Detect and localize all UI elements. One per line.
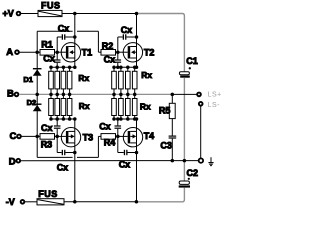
svg-text:T2: T2 bbox=[144, 48, 155, 58]
capacitor C1 bbox=[179, 56, 197, 78]
svg-text:C2: C2 bbox=[187, 168, 199, 178]
gray decoupling loop: top segment bbox=[137, 14, 185, 72]
T3 source wire to -V rail bbox=[74, 143, 76, 202]
svg-text:T1: T1 bbox=[82, 48, 93, 58]
T4 source wire to -V rail bbox=[136, 143, 138, 202]
fuse FUS top bbox=[38, 0, 62, 16]
over-route wire A to R2 (hops T1 drain) bbox=[37, 31, 101, 52]
T1 drain wire to +V rail bbox=[74, 14, 76, 47]
resistor R3 bbox=[40, 134, 57, 150]
LS+ terminal bbox=[197, 92, 222, 99]
svg-text:C: C bbox=[10, 131, 17, 142]
resistor R4 bbox=[101, 134, 118, 148]
svg-text:Cx: Cx bbox=[41, 123, 53, 133]
svg-text:D1: D1 bbox=[23, 75, 33, 84]
svg-text:Cx: Cx bbox=[43, 53, 55, 63]
D terminal bbox=[9, 156, 20, 167]
bottom -V rail wire bbox=[64, 201, 136, 203]
svg-text:R5: R5 bbox=[159, 106, 171, 116]
svg-text:R1: R1 bbox=[41, 40, 53, 50]
T1 source wire to Rx bus bbox=[74, 58, 76, 67]
B terminal bbox=[7, 88, 18, 99]
capacitor C3 bbox=[160, 136, 176, 161]
ground terminal bbox=[199, 158, 203, 162]
svg-text:Cx: Cx bbox=[99, 121, 111, 131]
svg-text:Rx: Rx bbox=[140, 101, 151, 111]
svg-text:Rx: Rx bbox=[78, 73, 89, 83]
wire +V to fuse bbox=[21, 13, 38, 15]
capacitor Cx gate-drain T3 bbox=[41, 119, 61, 136]
transistor T2 bbox=[118, 43, 155, 62]
svg-text:Rx: Rx bbox=[79, 101, 90, 111]
resistor bank Rx (T1 source) bbox=[49, 67, 90, 94]
svg-text:+V: +V bbox=[3, 8, 14, 18]
svg-text:R4: R4 bbox=[104, 138, 116, 148]
-V terminal bbox=[6, 197, 25, 207]
B output line (gray) to R5 node bbox=[19, 93, 172, 95]
svg-text:Cx: Cx bbox=[58, 23, 70, 33]
resistor bank Rx (T4 drain) bbox=[112, 94, 151, 119]
ground symbol bbox=[208, 157, 213, 165]
svg-text:Cx: Cx bbox=[119, 160, 131, 170]
svg-text:-V: -V bbox=[6, 197, 15, 207]
capacitor Cx gate-source T3 bbox=[57, 136, 75, 172]
capacitor C2 bbox=[179, 168, 198, 187]
svg-text:LS-: LS- bbox=[208, 102, 221, 109]
transistor T1 bbox=[57, 43, 92, 62]
svg-text:D: D bbox=[9, 156, 16, 167]
resistor bank Rx (T3 drain) bbox=[49, 94, 90, 119]
resistor bank Rx (T2 source) bbox=[112, 67, 153, 94]
svg-text:T4: T4 bbox=[144, 131, 155, 141]
svg-text:C3: C3 bbox=[160, 141, 172, 151]
T4 drain wire to Rx bus bbox=[136, 119, 138, 131]
capacitor Cx gate-drain T2 bbox=[118, 25, 137, 52]
svg-text:FUS: FUS bbox=[38, 189, 58, 199]
svg-text:Rx: Rx bbox=[141, 70, 152, 80]
D ground line to ground terminal bbox=[21, 160, 199, 162]
+V terminal bbox=[3, 8, 21, 18]
capacitor Cx gate-source T4 bbox=[118, 136, 137, 169]
T2 drain wire to +V rail bbox=[136, 14, 138, 47]
svg-text:A: A bbox=[6, 47, 13, 58]
resistor R2 bbox=[101, 41, 118, 55]
capacitor Cx gate-source T1 bbox=[43, 52, 60, 67]
gray vertical between C1 and C2 bbox=[183, 78, 185, 181]
T3 drain wire to Rx bus bbox=[74, 119, 76, 131]
capacitor Cx gate-drain T4 bbox=[99, 119, 121, 136]
wire -V to fuse bbox=[25, 201, 37, 203]
LS- terminal bbox=[199, 102, 220, 109]
under-route wire C to R4 (hops T3 source) bbox=[37, 136, 101, 157]
gray decoupling loop: bottom segment bbox=[136, 188, 184, 202]
svg-text:B: B bbox=[7, 88, 14, 99]
svg-text:Cx: Cx bbox=[57, 163, 69, 173]
capacitor Cx gate-drain T1 bbox=[57, 23, 75, 52]
resistor R5 bbox=[159, 94, 175, 135]
A terminal bbox=[6, 47, 19, 58]
svg-text:D2: D2 bbox=[27, 98, 37, 107]
svg-text:R3: R3 bbox=[41, 140, 53, 150]
top +V rail wire bbox=[62, 13, 137, 15]
wire R5 node to LS+ bbox=[172, 93, 196, 95]
C terminal bbox=[10, 131, 21, 142]
LS- wire down to ground node bbox=[200, 106, 202, 158]
svg-text:C1: C1 bbox=[186, 56, 198, 66]
svg-text:LS+: LS+ bbox=[208, 92, 222, 99]
wire C to R3 bbox=[22, 135, 41, 137]
diode D1 bbox=[23, 52, 41, 94]
fuse FUS bottom bbox=[37, 189, 64, 205]
wire A to R1 bbox=[20, 51, 41, 53]
svg-text:FUS: FUS bbox=[41, 0, 61, 10]
capacitor Cx gate-source T2 bbox=[104, 52, 122, 67]
diode D2 bbox=[27, 94, 42, 136]
T2 source wire to Rx bus bbox=[136, 58, 138, 67]
svg-text:Cx: Cx bbox=[104, 55, 116, 65]
svg-text:T3: T3 bbox=[83, 132, 94, 142]
svg-text:Cx: Cx bbox=[121, 25, 133, 35]
resistor R1 bbox=[40, 40, 57, 56]
transistor T4 bbox=[118, 128, 154, 147]
transistor T3 bbox=[57, 128, 93, 147]
